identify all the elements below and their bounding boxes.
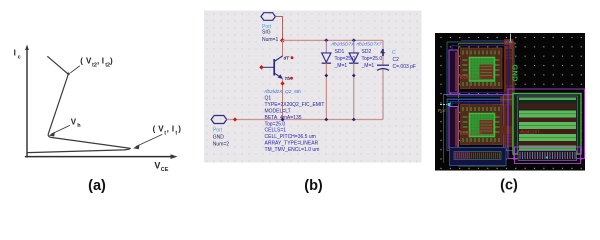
svg-text:I: I (102, 57, 104, 66)
olive guard frame (459, 44, 506, 167)
probe cross top (510, 34, 512, 42)
node emitter/gnd junction (281, 118, 285, 122)
inter-cell bus (444, 94, 514, 96)
diode SD1 (322, 53, 331, 62)
transistor Q1 emitter arrow (278, 74, 283, 79)
wire SD1 anode (325, 40, 327, 53)
svg-text:rfb2dC2X7: rfb2dC2X7 (520, 130, 540, 135)
node junction P1 (red diamond) (280, 38, 285, 43)
svg-text:Top=25.0: Top=25.0 (335, 56, 356, 62)
svg-text:rfb2dSD7X7: rfb2dSD7X7 (459, 131, 483, 136)
wire C2 bottom lead (382, 69, 384, 120)
wire collector (282, 40, 284, 56)
y axis Ic (26, 49, 28, 158)
arrow (Vt,It) -> trigger point (136, 135, 162, 147)
svg-text:Tb: Tb (285, 76, 291, 81)
wire SD2 cathode (353, 63, 355, 119)
pin 1 marker C2 (382, 49, 384, 56)
pin SD2 cathode (352, 74, 356, 78)
diode SD2 (349, 53, 358, 62)
svg-text:C: C (392, 50, 396, 56)
svg-text:C=.003 pF: C=.003 pF (393, 64, 417, 70)
transistor Q1 collector lead (274, 56, 282, 62)
svg-text:C2: C2 (393, 57, 400, 63)
svg-text:V: V (71, 118, 77, 127)
svg-text:SD2: SD2 (362, 49, 372, 55)
svg-text:,: , (167, 125, 169, 134)
schematic background (204, 11, 422, 163)
junction SD2 anode / top rail (352, 38, 356, 42)
base open pin (red diamond) (259, 65, 264, 70)
svg-text:I: I (14, 49, 16, 58)
svg-text:TYPE=2X20Q2_FIC_EMIT: TYPE=2X20Q2_FIC_EMIT (265, 102, 325, 108)
transistor Q1 emitter lead (274, 73, 282, 78)
layout background (435, 33, 585, 171)
emitter pin (red diamond) (280, 81, 284, 85)
wire emitter down (282, 78, 284, 119)
svg-text:(: ( (153, 125, 156, 134)
wire C2 top lead (382, 40, 384, 64)
top metal bus (461, 40, 504, 42)
svg-text:CELLS=1: CELLS=1 (265, 128, 287, 134)
GND pad cap (505, 40, 514, 49)
svg-text:SIG: SIG (262, 29, 271, 35)
svg-text:rfb2dSD7X7: rfb2dSD7X7 (357, 41, 382, 46)
svg-text:(a): (a) (88, 178, 106, 194)
svg-text:GND: GND (213, 134, 225, 140)
junction SD1 anode / top rail (324, 38, 328, 42)
capacitor block C2 (right) (508, 89, 585, 159)
ground rail pin (red diamond) (233, 117, 237, 121)
svg-text:(c): (c) (500, 178, 518, 194)
port P1 (SIG) hexagon (261, 13, 275, 21)
GND metal bar (504, 39, 514, 147)
svg-text:c: c (18, 55, 21, 61)
svg-text:Q1: Q1 (265, 96, 272, 102)
svg-text:I: I (172, 125, 174, 134)
arrow Vh -> knee (52, 126, 70, 135)
wire port P1 to node (275, 17, 282, 41)
pin SD1 cathode (324, 74, 328, 78)
svg-text:CE: CE (161, 167, 169, 173)
svg-text:_M=1: _M=1 (361, 63, 375, 69)
svg-text:CELL_PITCH=36.5 um: CELL_PITCH=36.5 um (265, 134, 316, 140)
wire ground rail (227, 119, 383, 121)
wire top rail (283, 39, 384, 41)
svg-text:rfb2dSD7X7: rfb2dSD7X7 (459, 75, 483, 80)
svg-text:MODEL=LT: MODEL=LT (265, 108, 291, 114)
svg-text:V: V (154, 161, 160, 171)
svg-text:SD1: SD1 (335, 49, 345, 55)
port P2 (GND) hexagon (211, 116, 227, 124)
mid vertical bus (502, 95, 504, 149)
svg-text:,: , (97, 57, 99, 66)
svg-text:(: ( (80, 57, 83, 66)
svg-text:rfb2ld2X_Q2_5th: rfb2ld2X_Q2_5th (265, 89, 302, 95)
svg-text:Port: Port (213, 128, 223, 134)
svg-text:GND: GND (510, 65, 519, 83)
svg-text:): ) (110, 57, 113, 66)
x axis Vce (26, 156, 174, 158)
wire SD2 anode (353, 40, 355, 53)
svg-text:Num=2: Num=2 (213, 141, 229, 147)
node (Vt2,It2) (67, 73, 70, 76)
svg-text:): ) (178, 125, 181, 134)
wire SD1 cathode (325, 63, 327, 119)
IV curve (28, 57, 130, 153)
transistor Q1 base bar (273, 59, 275, 76)
leader to (Vt2,It2) (71, 66, 80, 73)
junction SD2 / ground rail (352, 118, 356, 122)
svg-text:t: t (175, 131, 177, 137)
via patch (501, 126, 512, 134)
svg-text:ARRAY_TYPE=LINEAR: ARRAY_TYPE=LINEAR (265, 141, 319, 147)
svg-text:(b): (b) (304, 178, 323, 194)
svg-text:_M=1: _M=1 (334, 63, 348, 69)
svg-text:rfb2dSD7X: rfb2dSD7X (332, 41, 355, 46)
cell SD2 (mid-left) (447, 100, 514, 151)
svg-text:TM_TMV_ENCL=1.0 um: TM_TMV_ENCL=1.0 um (265, 147, 320, 153)
substrate contact row (bottom-right) (515, 147, 581, 164)
capacitor C2 (377, 64, 389, 66)
transistor Q1 base lead (262, 66, 275, 68)
svg-text:Top=25.0: Top=25.0 (362, 56, 383, 62)
svg-text:Top=25.0: Top=25.0 (265, 121, 286, 127)
cell SD1 (top-left) (447, 42, 514, 96)
svg-text:Num=1: Num=1 (262, 37, 278, 43)
junction SD1 / ground rail (324, 118, 328, 122)
substrate contact row (bottom-left) (450, 148, 507, 166)
